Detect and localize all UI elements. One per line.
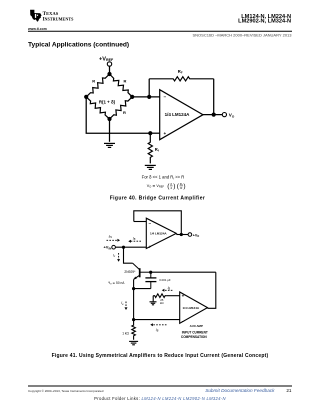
svg-text:IB: IB [133,236,136,241]
op-amp U1 1/4 LM124A (figure 40) [160,90,203,140]
terminal +VIN [112,245,116,249]
svg-text:VO: VO [229,113,235,119]
wire input node down to transistor collector [124,247,133,263]
svg-text:Copyright © 2000–2013, Texas I: Copyright © 2000–2013, Texas Instruments… [28,389,104,393]
wire bridge right node to op-amp - input [132,96,160,98]
svg-text:0.001 μF: 0.001 μF [159,278,171,282]
node + input junction [148,131,152,135]
svg-text:R: R [123,110,126,115]
wire VREF terminal to bridge top [109,66,111,72]
svg-text:IIN: IIN [109,234,113,239]
svg-text:+: + [182,294,185,299]
svg-text:1/4 LM124A: 1/4 LM124A [183,306,200,310]
svg-text:Ic: Ic [113,254,116,259]
ground (bridge bottom) [104,143,115,147]
svg-text:VO ≅ VREF: VO ≅ VREF [147,184,165,189]
wire feedback loop main amp [134,211,182,235]
svg-text:21: 21 [286,388,292,393]
wire to - input main amp [134,221,147,223]
node bridge top [107,72,111,76]
svg-text:Rf: Rf [155,147,159,153]
resistor R(1+d) (bridge bottom-left) [86,97,109,119]
svg-text:Product Folder Links: LM124-N: Product Folder Links: LM124-N LM224-N LM… [94,396,226,401]
svg-text:AUX AMP: AUX AMP [190,324,203,328]
svg-text:Submit Documentation Feedback: Submit Documentation Feedback [205,388,275,393]
svg-text:For δ << 1 and Rf >> R: For δ << 1 and Rf >> R [142,175,185,181]
wire op-amp output to VO terminal [203,114,222,116]
current arrow Ie [121,301,127,310]
node input junction [122,246,125,249]
terminal VO [222,113,226,117]
ground (1 kOhm resistor) [129,341,138,344]
svg-text:R: R [180,186,182,190]
current arrow IB (main amp) [128,236,141,242]
wire feedback down to output node [213,79,215,115]
transistor Q1 2N929 [133,263,151,279]
terminal +VREF [107,62,111,66]
svg-text:SNOSC16D –MARCH 2000–REVISED J: SNOSC16D –MARCH 2000–REVISED JANUARY 201… [192,32,292,37]
svg-text:IB: IB [156,328,159,333]
wire junction up to feedback resistor [148,79,150,97]
svg-text:Typical Applications (continu: Typical Applications (continued) [28,41,129,48]
node bridge right [130,95,134,99]
wire emitter down to aux - node [133,279,135,319]
wire bridge left node to op-amp + input rail [86,97,150,133]
svg-text:R: R [92,78,95,83]
wire resistor to ground [152,296,154,302]
svg-text:1/4 LM124A: 1/4 LM124A [165,112,191,117]
current arrow IB (aux + input) [162,286,173,292]
svg-text:−: − [182,319,185,324]
svg-text:LM2902-N, LM324-N: LM2902-N, LM324-N [238,18,291,24]
svg-text:−: − [164,95,167,100]
svg-text:COMPENSATION: COMPENSATION [181,335,207,339]
resistor 1 kOhm [132,320,136,340]
current arrow Ic [113,253,120,262]
node aux - input junction [132,318,135,321]
svg-text:+: + [148,245,151,250]
wire bridge bottom to ground [109,119,111,142]
resistor Rf (+ input to ground) [148,133,152,163]
current arrow IIN [107,234,121,241]
wire node to aux - input [134,319,180,321]
node transistor base junction [149,271,152,274]
wire resistor to aux + input [167,295,180,297]
svg-text:4: 4 [170,186,172,190]
svg-text:): ) [183,183,185,190]
ground (+ input resistor) [145,165,156,169]
svg-text:*Ie ≅ 50 nA: *Ie ≅ 50 nA [108,281,125,286]
svg-text:2N929*: 2N929* [124,270,136,274]
node bridge left [84,95,88,99]
wire main amp output to +VO terminal [176,234,188,236]
header rule [28,30,292,32]
wire +VIN to + input main amp [115,246,146,248]
svg-text:Figure 41. Using Symmetrical A: Figure 41. Using Symmetrical Amplifiers … [52,353,269,359]
resistor RF (feedback) [149,77,214,81]
svg-text:INPUT CURRENT: INPUT CURRENT [182,330,208,334]
ground (25 kOhm resistor) [150,302,157,305]
svg-text:1/4 LM124A: 1/4 LM124A [150,232,167,236]
footer rule [28,385,292,387]
wire base node to aux feedback [151,271,216,273]
svg-text:RF: RF [178,69,183,75]
wire junction to op-amp + input [150,132,159,134]
TI logo Texas-state glyph [30,10,41,22]
node output junction [212,113,216,117]
svg-text:−: − [148,221,151,226]
svg-text:+VO: +VO [193,233,200,238]
svg-text:R(1 + δ): R(1 + δ) [99,100,116,105]
svg-text:IB: IB [168,286,171,291]
svg-text:+: + [164,131,167,136]
svg-text:kΩ: kΩ [160,301,164,305]
wire aux output feedback to base node [208,272,216,308]
node emitter-capacitor junction [132,287,135,290]
wire emitter node to capacitor bottom [134,288,151,290]
node bridge bottom [107,117,111,121]
current arrow IB (aux - input) [150,323,166,332]
resistor R (bridge top-right) [110,74,133,97]
resistor R (bridge bottom-right) [110,97,133,119]
svg-text:R: R [124,78,127,83]
svg-text:Figure 40. Bridge Current Amp: Figure 40. Bridge Current Amplifier [110,196,205,202]
svg-text:+VREF: +VREF [99,56,114,62]
capacitor C1 0.001 uF [145,272,156,288]
resistor R (bridge top-left) [86,74,109,97]
terminal +VO [188,233,192,237]
svg-text:): ) [173,183,175,190]
svg-text:Ie: Ie [121,301,124,306]
op-amp U2 1/4 LM124A (main, figure 41) [146,218,176,248]
op-amp U3 1/4 LM124A (aux, figure 41) [180,292,208,323]
svg-text:+VIN: +VIN [103,245,111,251]
node - input junction [147,95,151,99]
node output main amp [180,233,183,236]
svg-text:1 kΩ: 1 kΩ [122,331,129,335]
formula VO equation [147,182,186,190]
resistor 25 kOhm (aux + input) [153,294,166,298]
svg-text:INSTRUMENTS: INSTRUMENTS [43,16,75,22]
svg-text:www.ti.com: www.ti.com [27,27,47,31]
